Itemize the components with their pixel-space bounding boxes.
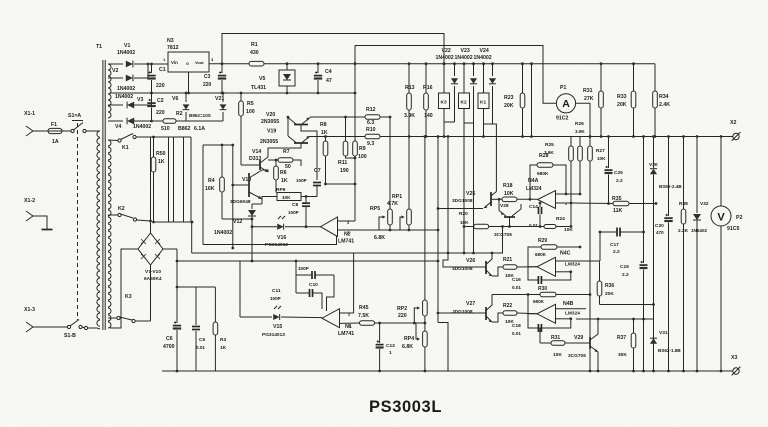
svg-text:R1: R1 [251, 42, 258, 48]
svg-text:100: 100 [358, 154, 367, 160]
svg-text:C7: C7 [314, 168, 321, 174]
op-amp N4A LM324 [526, 178, 567, 209]
wire V13 base [231, 184, 249, 187]
svg-text:C19: C19 [620, 264, 629, 270]
wire V14 base [241, 164, 260, 166]
svg-text:V: V [717, 212, 725, 224]
svg-text:B862: B862 [178, 126, 191, 132]
wire V14 collector [268, 144, 301, 158]
svg-text:R11: R11 [338, 160, 347, 166]
wire [535, 328, 540, 343]
svg-text:6.8K: 6.8K [402, 344, 413, 350]
svg-text:3CG706: 3CG706 [568, 353, 586, 359]
svg-text:C25: C25 [614, 170, 623, 176]
svg-text:LM741: LM741 [338, 239, 354, 245]
transistor V26 [452, 252, 493, 276]
svg-text:S1-B: S1-B [64, 333, 76, 339]
svg-text:LM324: LM324 [565, 311, 580, 317]
resistor R21 [492, 257, 537, 279]
svg-text:2N3055: 2N3055 [261, 119, 279, 125]
svg-text:10K: 10K [564, 227, 573, 233]
svg-text:C17: C17 [610, 242, 619, 248]
svg-text:V22: V22 [442, 48, 451, 54]
diode V30 [649, 135, 682, 203]
svg-text:V2: V2 [112, 68, 118, 74]
svg-text:1N4002: 1N4002 [455, 55, 473, 61]
wire [642, 319, 645, 372]
capacitor C7 [296, 168, 321, 197]
svg-text:V14: V14 [252, 149, 261, 155]
svg-text:100P: 100P [298, 266, 309, 271]
wire C7 row [0, 0, 1, 1]
capacitor C25 [605, 135, 624, 205]
transistor V28 [494, 203, 521, 238]
resistor R2 [152, 111, 206, 132]
wire [484, 123, 493, 125]
svg-text:V16: V16 [277, 235, 286, 241]
resistor R4 [205, 145, 224, 219]
svg-text:220: 220 [156, 110, 165, 116]
svg-text:20K: 20K [504, 103, 514, 109]
wire V20 base [301, 125, 317, 180]
svg-text:R26: R26 [575, 121, 584, 127]
wire N2 +in [338, 184, 356, 221]
relay coil K1 [478, 62, 489, 124]
svg-text:10K: 10K [553, 352, 562, 358]
wire [438, 208, 483, 210]
wire V20 emitter [310, 116, 365, 118]
svg-text:Vin: Vin [171, 60, 178, 65]
voltmeter P2 [711, 135, 742, 372]
svg-text:LM324: LM324 [565, 262, 580, 268]
capacitor C10 [296, 266, 334, 288]
wire N2 -in row [338, 229, 440, 232]
svg-text:1N4002: 1N4002 [214, 230, 232, 236]
svg-text:1N4002: 1N4002 [115, 94, 133, 100]
wire [108, 77, 123, 79]
svg-text:100P: 100P [288, 210, 299, 215]
svg-text:X1-2: X1-2 [24, 198, 35, 204]
svg-text:R8: R8 [320, 122, 327, 128]
svg-text:RP2: RP2 [397, 306, 407, 312]
switch S1-A [68, 113, 97, 133]
svg-text:1N5402: 1N5402 [691, 228, 708, 233]
resistor R25 [544, 137, 573, 227]
svg-text:LM741: LM741 [338, 331, 354, 337]
svg-text:1K: 1K [281, 178, 288, 184]
svg-text:47: 47 [326, 78, 332, 84]
svg-text:6.1A: 6.1A [194, 126, 205, 132]
resistor R27 [588, 137, 606, 373]
svg-text:C14: C14 [529, 204, 538, 210]
svg-text:V29: V29 [574, 335, 583, 341]
wire [438, 323, 448, 372]
svg-text:C20: C20 [655, 223, 664, 229]
svg-text:C2: C2 [157, 98, 164, 104]
svg-text:V19: V19 [267, 129, 276, 135]
bridge rectifier V7-V10 [138, 233, 163, 282]
svg-text:C4: C4 [325, 69, 332, 75]
svg-text:BS62-2.4B: BS62-2.4B [659, 184, 682, 189]
diode V32 [691, 135, 709, 372]
svg-text:1N4002: 1N4002 [117, 50, 135, 56]
svg-text:2: 2 [347, 231, 349, 235]
resistor R34 [653, 64, 671, 138]
svg-text:3.9K: 3.9K [544, 150, 554, 155]
terminal X1-3 [24, 307, 39, 332]
svg-text:X1-3: X1-3 [24, 307, 35, 313]
pot RP2 [397, 135, 427, 331]
svg-text:RP5: RP5 [370, 206, 380, 212]
diode V31 [650, 330, 682, 353]
svg-text:10K: 10K [282, 195, 291, 200]
wire N1 +in stub [340, 253, 354, 313]
svg-text:B862=10S: B862=10S [189, 113, 211, 118]
svg-text:100P: 100P [270, 296, 281, 301]
svg-text:S1=A: S1=A [68, 113, 81, 119]
capacitor C2 [147, 93, 164, 122]
op-amp N4B LM324 [537, 301, 580, 323]
svg-text:R29: R29 [538, 238, 547, 244]
svg-text:2.2: 2.2 [613, 249, 620, 255]
svg-text:X3: X3 [731, 355, 737, 361]
resistor R11 [338, 116, 355, 174]
relay coil K3 [439, 62, 450, 122]
wire [222, 218, 253, 221]
svg-text:3.9K: 3.9K [575, 129, 585, 134]
svg-text:R6: R6 [280, 170, 287, 176]
svg-text:V15: V15 [273, 324, 282, 330]
svg-text:680K: 680K [533, 299, 545, 304]
diode V24 [474, 48, 497, 124]
capacitor C8 [288, 195, 310, 227]
svg-text:4.7K: 4.7K [387, 201, 398, 207]
svg-text:P1: P1 [560, 85, 566, 91]
svg-text:C11: C11 [272, 288, 281, 294]
svg-text:220: 220 [398, 313, 407, 319]
svg-text:R12: R12 [366, 107, 376, 113]
svg-text:R45: R45 [359, 305, 369, 311]
svg-text:N4C: N4C [560, 251, 571, 257]
svg-text:V1: V1 [124, 43, 130, 49]
svg-text:R20: R20 [459, 211, 468, 217]
earth stub [39, 216, 53, 230]
svg-text:JDG1008: JDG1008 [452, 309, 473, 315]
wire cluster [151, 137, 192, 222]
diode V23 [455, 48, 478, 123]
wire [530, 62, 533, 138]
svg-text:2.4K: 2.4K [659, 102, 670, 108]
ground bus [162, 370, 731, 372]
svg-text:V31: V31 [659, 330, 668, 336]
svg-text:V12: V12 [233, 219, 242, 225]
diode V16 [251, 216, 321, 248]
svg-text:V28: V28 [500, 203, 509, 209]
svg-text:G: G [186, 62, 189, 66]
capacitor C4 [314, 62, 332, 94]
wire [62, 130, 71, 132]
wire box bottom [203, 237, 337, 245]
svg-text:20K: 20K [617, 102, 627, 108]
svg-text:V27: V27 [466, 301, 475, 307]
resistor R1 [249, 42, 655, 66]
svg-text:K1: K1 [122, 145, 129, 151]
svg-text:LM324: LM324 [526, 186, 542, 192]
svg-text:K3: K3 [125, 294, 132, 300]
svg-text:0.01: 0.01 [512, 285, 521, 290]
wire emitter row [437, 135, 440, 322]
svg-text:C16: C16 [512, 277, 521, 283]
resistor R10 [365, 127, 731, 147]
svg-text:R18: R18 [503, 183, 513, 189]
svg-text:2.2K: 2.2K [678, 228, 689, 234]
svg-text:R9: R9 [359, 146, 366, 152]
svg-text:100P: 100P [296, 178, 307, 183]
svg-text:R3: R3 [220, 337, 226, 343]
svg-text:R4: R4 [208, 178, 215, 184]
op-amp N4C LM324 [537, 251, 580, 277]
svg-text:C1: C1 [159, 67, 166, 73]
transistor V25 [452, 191, 496, 208]
svg-text:30K: 30K [618, 352, 627, 358]
svg-text:220: 220 [156, 83, 165, 89]
resistor R31 10K [540, 335, 590, 358]
svg-text:TL431: TL431 [251, 85, 266, 91]
svg-text:20K: 20K [605, 291, 614, 297]
wire N4C input stubs [556, 261, 600, 273]
svg-text:0.01: 0.01 [196, 345, 205, 350]
svg-text:V23: V23 [461, 48, 470, 54]
wire N4A inputs [556, 194, 581, 203]
svg-text:3DG1008: 3DG1008 [452, 198, 473, 204]
svg-text:6.8K: 6.8K [374, 235, 385, 241]
svg-text:1N4002: 1N4002 [117, 86, 135, 92]
svg-text:R16: R16 [423, 85, 433, 91]
svg-text:3: 3 [347, 221, 349, 225]
svg-text:V4: V4 [115, 124, 121, 130]
diode V12 [214, 204, 256, 262]
fuse F1 [39, 122, 62, 145]
relay coil K2 [459, 62, 470, 123]
svg-text:N3: N3 [167, 38, 174, 44]
resistor R50 [151, 136, 165, 224]
resistor R29 [528, 238, 581, 267]
op-amp N2 LM741 [321, 217, 355, 245]
capacitor C17 [599, 228, 645, 256]
svg-text:C10: C10 [309, 282, 318, 288]
svg-text:1K: 1K [321, 130, 328, 136]
svg-text:R7: R7 [283, 149, 290, 155]
wire [39, 326, 68, 328]
pot RP5 [370, 117, 392, 241]
svg-text:R23: R23 [504, 95, 514, 101]
wire sense row [326, 183, 357, 186]
svg-text:27K: 27K [584, 96, 594, 102]
wire [108, 63, 123, 65]
resistor R45 [358, 305, 425, 325]
svg-text:R31: R31 [551, 335, 560, 341]
terminal X3 [731, 355, 740, 375]
resistor R37 [617, 319, 636, 372]
diode V2 [112, 63, 149, 92]
svg-text:100: 100 [246, 109, 255, 115]
svg-text:R22: R22 [503, 303, 512, 309]
svg-text:A: A [562, 98, 570, 110]
terminal X1-1 [24, 111, 39, 136]
wire V13 base col [231, 145, 234, 249]
resistor R8 [320, 122, 328, 185]
svg-text:V5: V5 [259, 76, 265, 82]
svg-text:V32: V32 [700, 201, 709, 207]
svg-text:PS3003L: PS3003L [369, 398, 442, 416]
wire V28 legs [498, 198, 521, 211]
svg-text:K2: K2 [461, 100, 467, 106]
resistor R35 [571, 196, 657, 214]
wire [447, 135, 450, 253]
svg-text:F1: F1 [51, 122, 57, 128]
svg-text:680K: 680K [537, 171, 549, 177]
wire [295, 260, 298, 293]
svg-text:6A60K4: 6A60K4 [144, 276, 162, 282]
wire [177, 286, 215, 288]
wire 0V rail [110, 92, 355, 94]
capacitor C20 [655, 135, 673, 372]
op-amp N1 LM741 [322, 309, 354, 337]
resistor R31 27K [583, 62, 603, 138]
svg-text:16K: 16K [205, 186, 215, 192]
svg-text:3DG1008: 3DG1008 [452, 266, 473, 272]
svg-text:2: 2 [348, 313, 350, 317]
wire [472, 123, 475, 254]
svg-text:10K: 10K [597, 156, 606, 161]
svg-text:140: 140 [424, 113, 433, 119]
relay contact K1 [108, 134, 151, 152]
svg-text:RP4: RP4 [404, 336, 414, 342]
wire GND pin [187, 72, 190, 94]
svg-text:3: 3 [348, 324, 350, 328]
svg-text:470: 470 [656, 230, 664, 235]
resistor R18 [491, 183, 537, 202]
resistor R23 [504, 62, 525, 138]
resistor R26 [575, 121, 585, 195]
transistor V14 [249, 149, 268, 172]
zener V6 [172, 92, 189, 121]
svg-text:T1: T1 [96, 44, 102, 50]
svg-text:R37: R37 [617, 335, 626, 341]
svg-text:R24: R24 [556, 216, 565, 222]
diode V1 [117, 43, 168, 67]
wire V13 emitter [252, 199, 262, 204]
wire [600, 304, 654, 306]
capacitor C13 [376, 323, 396, 372]
resistor R36 [597, 261, 614, 305]
wire [576, 103, 592, 138]
svg-text:V7-V10: V7-V10 [145, 269, 161, 275]
capacitor C19 [620, 135, 648, 319]
svg-text:3CG706: 3CG706 [494, 232, 512, 238]
capacitor C11 [270, 288, 322, 309]
svg-text:1K: 1K [220, 345, 227, 351]
svg-text:K3: K3 [441, 100, 447, 106]
svg-text:190: 190 [340, 168, 349, 174]
capacitor C6 [163, 249, 181, 372]
svg-text:C3: C3 [204, 74, 211, 80]
svg-text:K2: K2 [118, 206, 125, 212]
svg-text:430: 430 [250, 50, 259, 56]
svg-text:RP1: RP1 [392, 194, 402, 200]
svg-text:2.2: 2.2 [616, 178, 623, 184]
svg-text:C13: C13 [386, 343, 395, 349]
wire staircase V26 [443, 252, 486, 267]
terminal X1-2 [24, 198, 39, 221]
wire [599, 232, 601, 261]
svg-text:X2: X2 [730, 120, 736, 126]
wire K1 common [482, 124, 485, 138]
relay contact K2 [108, 206, 151, 221]
labels V20 V19 [260, 112, 279, 145]
transistor V20 [288, 118, 310, 125]
wire N1 fb [327, 275, 335, 311]
wire ammeter feed [354, 46, 557, 104]
svg-text:11K: 11K [613, 208, 622, 214]
pot RP1 [387, 135, 411, 230]
resistor R38 [678, 135, 689, 372]
svg-text:R50: R50 [156, 151, 166, 157]
transistor V19 [288, 136, 310, 143]
svg-text:BS62-1.8B: BS62-1.8B [658, 348, 681, 353]
svg-text:7812: 7812 [167, 45, 179, 51]
svg-text:R10: R10 [366, 127, 376, 133]
relay contact K3 [108, 294, 151, 323]
terminal X2 [730, 120, 740, 141]
svg-text:R2: R2 [176, 111, 183, 117]
top loop / capacitor C3 [203, 34, 445, 95]
ammeter P1 [556, 85, 576, 122]
resistor R6 [274, 159, 288, 193]
wire [154, 221, 194, 253]
svg-text:V24: V24 [480, 48, 489, 54]
svg-text:0.01: 0.01 [512, 331, 521, 336]
svg-text:91C5: 91C5 [727, 226, 740, 232]
svg-text:1: 1 [389, 350, 392, 356]
svg-text:6.3: 6.3 [367, 120, 374, 126]
capacitor C18 [512, 314, 571, 336]
capacitor C14 [529, 202, 542, 228]
wire [176, 120, 223, 122]
diode V22 [436, 48, 459, 122]
svg-text:9.3: 9.3 [367, 141, 374, 147]
svg-text:7.5K: 7.5K [358, 313, 369, 319]
resistor R13 [404, 62, 415, 136]
svg-text:C5: C5 [199, 337, 205, 343]
svg-text:1A: 1A [52, 139, 59, 145]
svg-text:91C2: 91C2 [556, 116, 569, 122]
diode V15 [240, 306, 322, 338]
svg-text:2N3055: 2N3055 [260, 139, 278, 145]
wire [239, 261, 241, 317]
wire K2 common [463, 123, 466, 254]
svg-text:10K: 10K [460, 220, 469, 225]
pot RP9 [262, 187, 317, 202]
svg-text:680K: 680K [535, 252, 547, 257]
svg-text:220: 220 [203, 82, 212, 88]
wire bridge right [163, 248, 177, 250]
svg-text:K1: K1 [480, 100, 486, 106]
wire bridge feed [149, 137, 152, 233]
wire box left [202, 145, 204, 245]
resistor R33 [617, 62, 636, 138]
svg-text:R5: R5 [247, 101, 254, 107]
